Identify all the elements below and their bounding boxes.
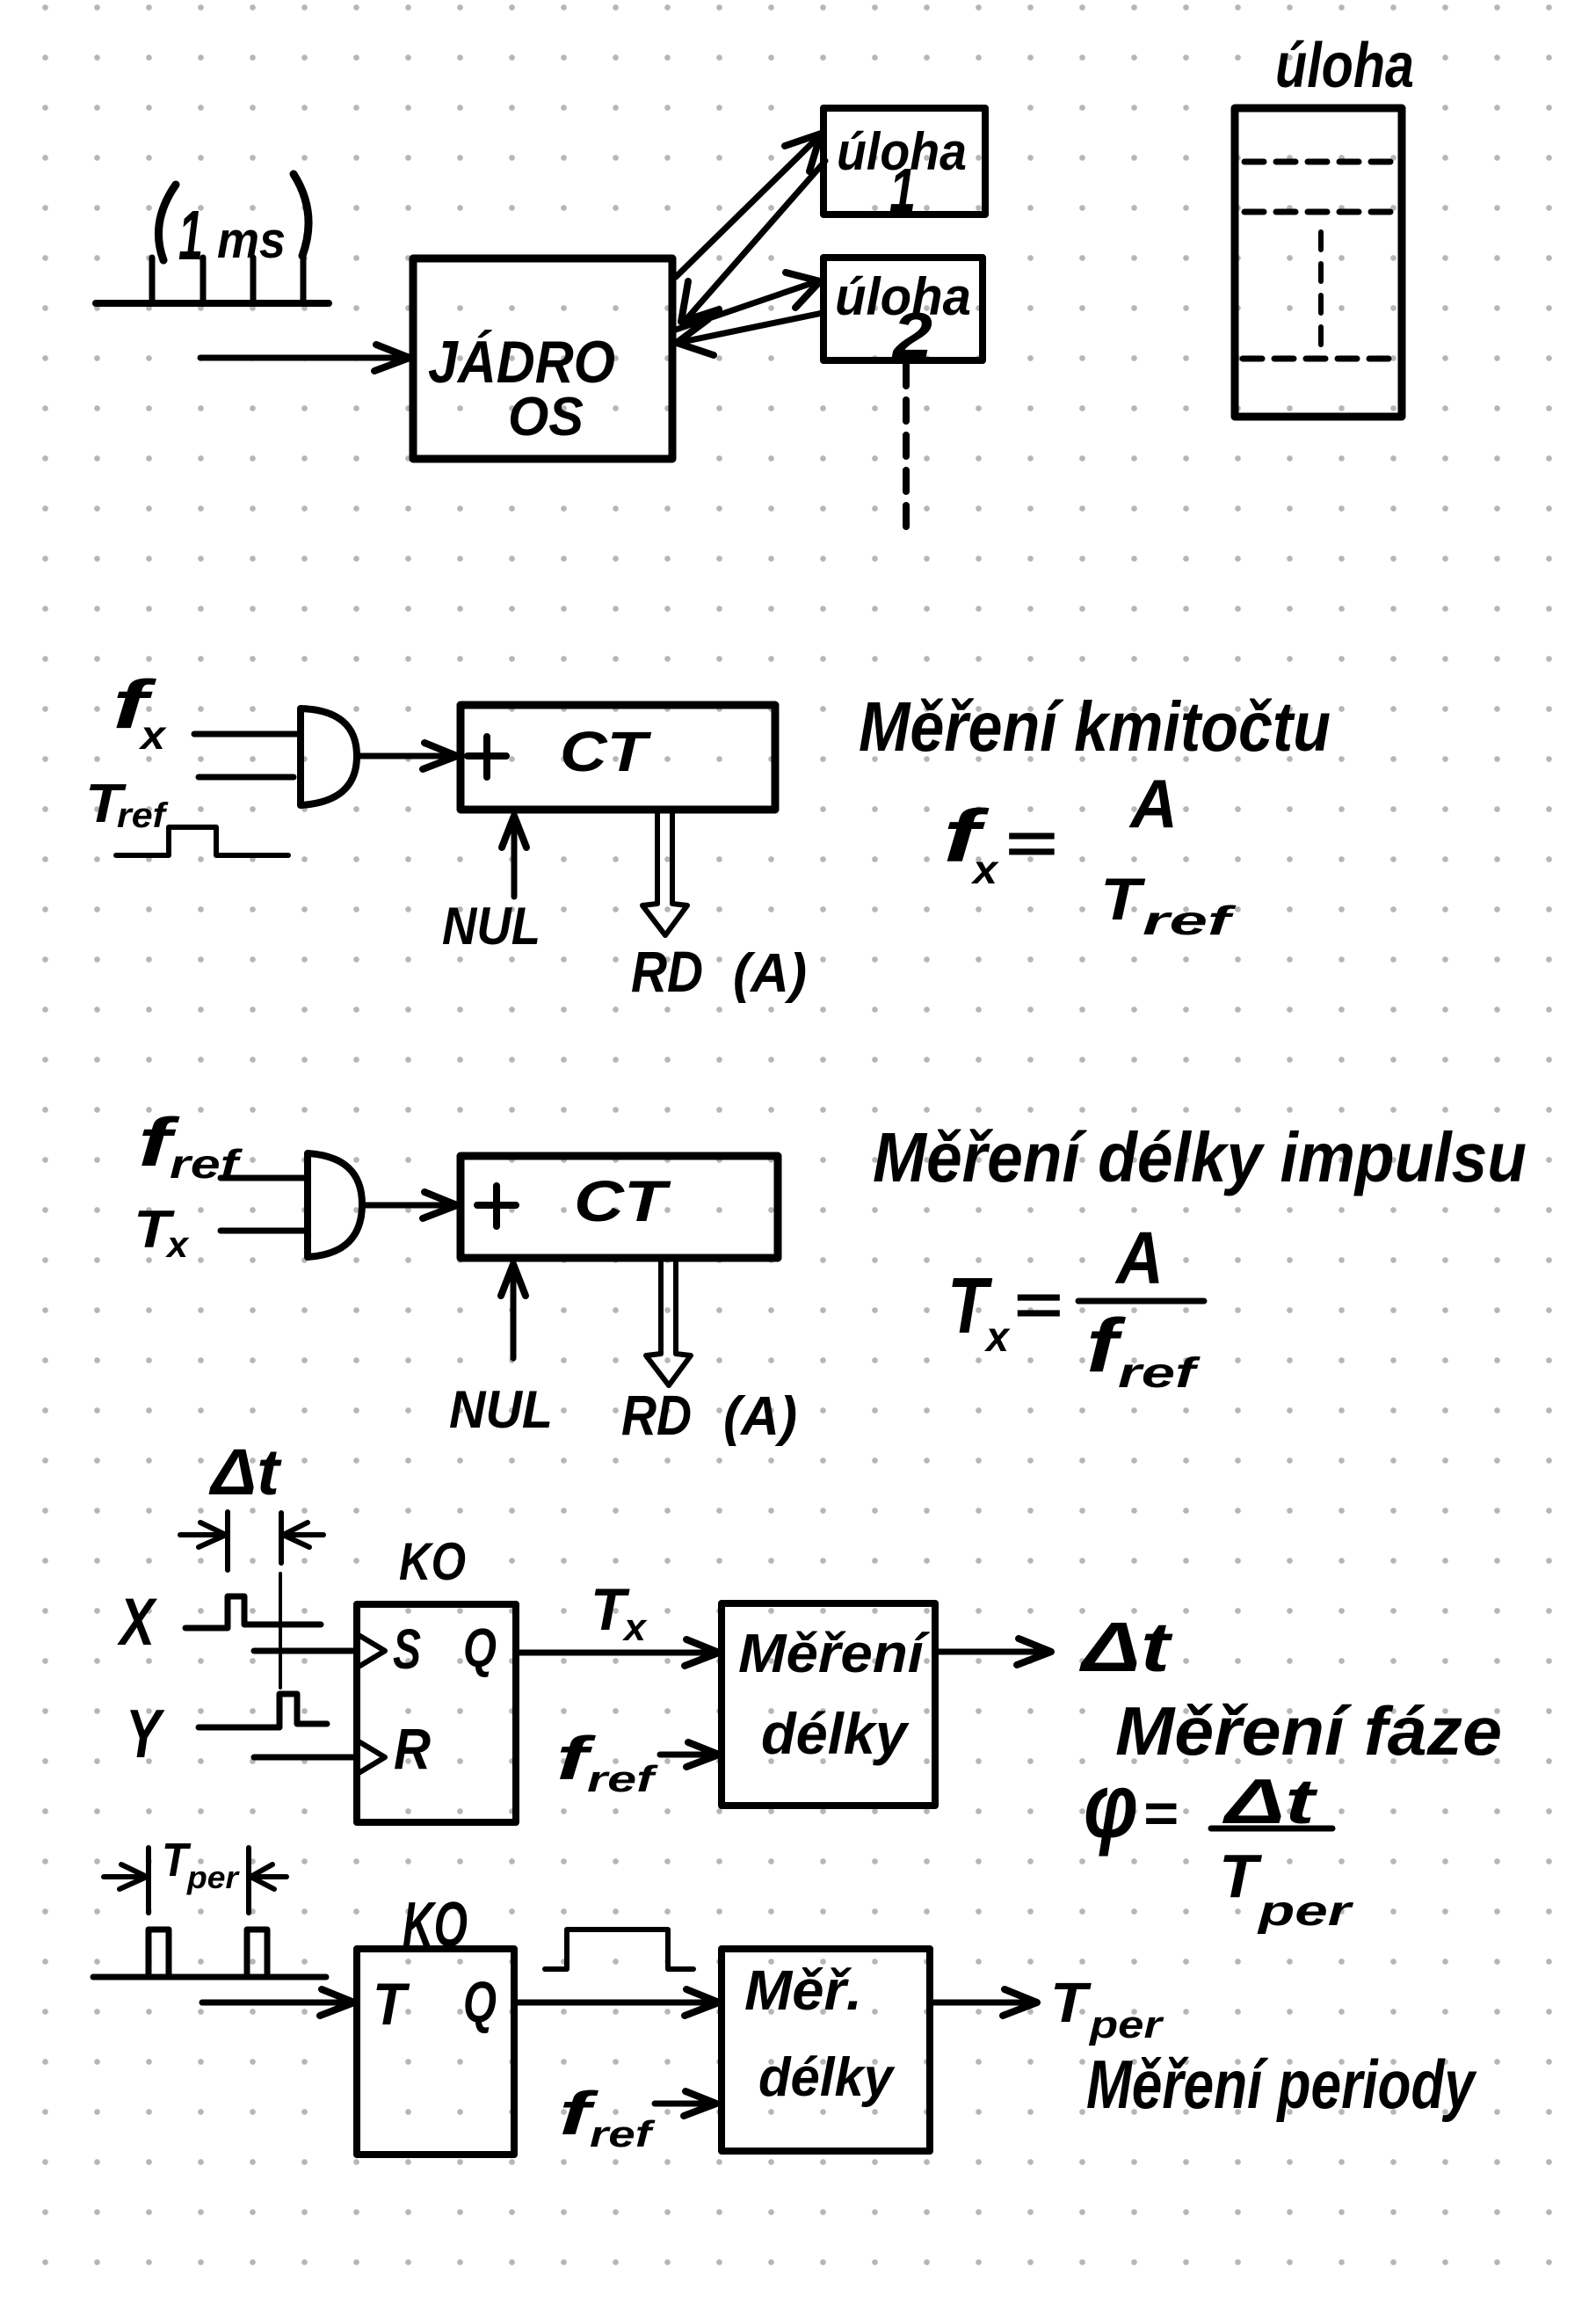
arrow into left tick2 [104,1864,147,1889]
label fx [112,665,168,758]
wire AND to CT [359,743,457,769]
svg-text:NUL: NUL [449,1380,553,1439]
task memory box [1235,108,1402,417]
wire NUL2 [501,1264,526,1358]
arrow into left tick [180,1523,226,1547]
gate pulse waveform [545,1930,693,1969]
svg-text:ref: ref [1143,898,1237,943]
bus RD2 arrow [646,1261,691,1385]
label Tper top [162,1834,240,1895]
svg-text:2: 2 [891,301,932,371]
block uloha 1 [823,108,985,224]
svg-text:x: x [983,1314,1011,1361]
svg-text:A: A [1114,1217,1164,1299]
svg-text:Měření periody: Měření periody [1086,2046,1477,2123]
svg-text:per: per [1256,1888,1353,1935]
formula Tx = A / fref [947,1217,1204,1397]
svg-text:ref: ref [1118,1350,1201,1397]
svg-text:CT: CT [574,1168,671,1233]
svg-text:Měření kmitočtu: Měření kmitočtu [859,687,1331,766]
right tick2 [246,1848,251,1913]
svg-text:X: X [117,1585,158,1660]
clock pulse train [96,253,329,303]
svg-text:(A): (A) [733,943,807,1004]
svg-text:úloha: úloha [1275,31,1414,101]
svg-text:Q: Q [463,1969,497,2034]
svg-text:(A): (A) [723,1386,797,1447]
thin vertical reference line [279,1574,282,1688]
svg-text:=: = [1143,1784,1178,1844]
wire fx into AND [194,731,298,738]
flip-flop KO T box [357,1949,514,2155]
svg-text:per: per [186,1859,240,1895]
svg-text:T: T [373,1971,410,2038]
svg-text:OS: OS [508,387,584,447]
label (1 ms) [158,174,308,274]
svg-text:NUL: NUL [442,897,540,956]
counter CT box [461,705,775,810]
wire fref into AND [221,1175,305,1181]
svg-text:T: T [1219,1842,1262,1910]
wire output Tper [930,1989,1037,2016]
Y pulse waveform [199,1694,327,1727]
wire uloha1 to JADRO [681,161,825,322]
svg-text:1: 1 [889,156,916,224]
svg-text:Měření fáze: Měření fáze [1115,1692,1502,1770]
svg-text:RD: RD [631,939,703,1004]
svg-text:=: = [1004,810,1056,876]
wire into T [202,1989,354,2016]
wire fref into block [660,1742,719,1767]
label Tx [134,1200,190,1265]
svg-text:délky: délky [758,2047,896,2108]
block Mer delky [722,1949,930,2151]
svg-text:T: T [1100,866,1146,933]
svg-text:x: x [165,1224,190,1265]
svg-text:ref: ref [587,1758,659,1799]
label Tper out [1050,1971,1164,2046]
svg-text:CT: CT [560,720,652,783]
label Tx wire [591,1576,648,1649]
svg-text:Měření: Měření [738,1624,930,1684]
block JADRO OS [413,258,672,459]
left tick [225,1512,230,1570]
svg-text:1: 1 [178,196,203,274]
wire Tref into AND [199,774,294,781]
label fref3 [559,2079,656,2155]
arrow into right tick [283,1523,323,1547]
wire JADRO to uloha1 [676,134,821,277]
svg-text:Q: Q [463,1618,497,1679]
bus RD arrow [642,812,687,935]
wire output delta t [935,1639,1051,1665]
AND gate G2 [308,1153,362,1257]
svg-text:JÁDRO: JÁDRO [428,329,615,396]
wire Tx into AND [221,1228,305,1234]
svg-text:ref: ref [117,796,169,835]
wire fref3 into block [655,2091,716,2116]
label RD (A) [631,939,807,1004]
wire Q to Mereni delky [517,1639,719,1666]
wire into S [254,1648,355,1654]
label fref [138,1103,243,1187]
svg-text:Měř.: Měř. [744,1959,862,2022]
dashed wire below uloha2 [903,365,910,527]
block uloha 2 [823,258,983,371]
svg-text:x: x [138,712,168,758]
counter CT2 box [461,1156,778,1258]
AND gate G1 [301,709,357,805]
wire JADRO to uloha2 [676,273,820,330]
svg-text:RD: RD [621,1384,692,1447]
formula phi = dt / Tper [1084,1755,1353,1935]
label fref2 [556,1724,659,1799]
svg-text:ref: ref [590,2113,656,2155]
svg-text:A: A [1128,765,1178,842]
left tick2 [146,1848,151,1913]
svg-text:KO: KO [399,1532,466,1591]
block Mereni delky [722,1603,935,1806]
svg-text:Y: Y [126,1695,165,1772]
svg-text:=: = [1012,1272,1062,1337]
svg-text:Δt: Δt [1078,1608,1173,1686]
label Tref [85,774,169,835]
wire AND to CT [364,1192,457,1218]
flip-flop KO SR box [357,1604,516,1822]
Tref pulse waveform [116,827,288,855]
X pulse waveform [185,1596,321,1628]
svg-text:délky: délky [761,1701,910,1766]
wire Q2 to Mer delky [514,1989,719,2016]
label RD2 (A) [621,1384,797,1447]
svg-text:R: R [394,1716,431,1781]
arrow into right tick2 [250,1864,287,1889]
formula fx = A / Tref [943,765,1237,943]
wire uloha2 to JADRO [677,313,823,355]
svg-text:Měření délky impulsu: Měření délky impulsu [873,1118,1527,1196]
svg-text:x: x [970,847,1000,892]
wire into R [254,1755,355,1761]
svg-text:S: S [393,1617,421,1681]
wire clock into JADRO [200,345,410,371]
svg-text:per: per [1089,2003,1165,2046]
svg-text:Δt: Δt [208,1435,283,1508]
svg-text:T: T [1050,1971,1092,2034]
svg-text:x: x [622,1606,648,1649]
wire NUL [502,816,526,897]
right tick [279,1513,284,1563]
svg-text:φ: φ [1084,1755,1138,1857]
periodic pulse train [93,1930,326,1977]
